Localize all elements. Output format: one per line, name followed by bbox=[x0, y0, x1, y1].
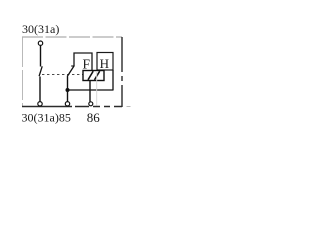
wire from junction right to below H box bbox=[68, 89, 114, 91]
component box H bbox=[97, 53, 113, 71]
svg-text:86: 86 bbox=[87, 110, 101, 125]
relay housing (dash-dot enclosure) top edge bbox=[22, 36, 122, 38]
svg-text:F: F bbox=[83, 57, 91, 72]
relay coil / armature (hatched box) bbox=[83, 71, 104, 81]
coil hatching stroke 2 bbox=[95, 71, 100, 80]
wire from switch S1 down to bottom terminal bbox=[39, 77, 41, 102]
switch S2 blade bbox=[67, 66, 74, 77]
terminal 85 circle bbox=[65, 102, 69, 106]
terminal 30(31a) top circle bbox=[38, 41, 42, 45]
wire from coil down to terminal 86 bbox=[89, 81, 91, 102]
faint scan line below H box bbox=[96, 71, 98, 106]
svg-text:H: H bbox=[100, 56, 109, 71]
wire from switch S2 down to terminal 85 bbox=[67, 77, 69, 102]
wire from top terminal down to switch S1 bbox=[40, 46, 42, 67]
mechanical linkage (dashed actuation line to armature) bbox=[42, 74, 83, 76]
terminal 86 circle bbox=[89, 102, 93, 106]
svg-text:30(31a): 30(31a) bbox=[22, 22, 59, 36]
relay housing left edge bbox=[22, 37, 24, 107]
terminal 30(31a) bottom circle bbox=[38, 102, 42, 106]
junction node dot bbox=[66, 88, 70, 92]
component box F (open at bottom-left) bbox=[74, 53, 92, 71]
relay housing right edge bbox=[121, 37, 123, 107]
svg-text:30(31a)85: 30(31a)85 bbox=[22, 110, 71, 124]
wire up from horizontal run to H box bottom bbox=[112, 70, 114, 91]
switch S1 blade bbox=[39, 66, 42, 76]
switch S2 upper contact tick bbox=[71, 65, 74, 67]
relay housing bottom edge bbox=[22, 106, 122, 108]
faint dash right of bottom corner bbox=[127, 106, 131, 108]
coil hatching stroke 1 bbox=[88, 71, 93, 80]
